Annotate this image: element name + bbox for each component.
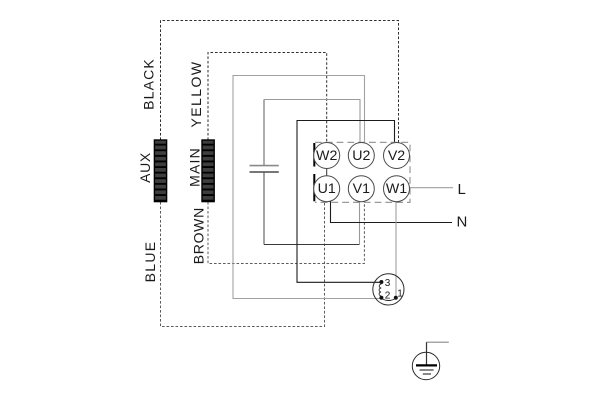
wire N: terminal U1 down and right to N (331, 201, 453, 222)
wire: terminal W1 down to connector pin 1 (395, 202, 397, 297)
svg-text:BLUE: BLUE (142, 241, 158, 283)
wire: across to above U2 (264, 100, 360, 143)
bridge pin2 to pin1 (381, 299, 395, 301)
terminal V2 (384, 143, 410, 169)
wire: terminal U2 up-left-down to connector pin 2 (gray loop) (233, 76, 381, 299)
terminal U1 (314, 176, 340, 202)
wire: up to terminal V1 (359, 202, 361, 245)
svg-text:BLACK: BLACK (141, 58, 157, 110)
svg-text:AUX: AUX (137, 152, 153, 183)
capacitor C1 (250, 166, 279, 172)
pin 3 (379, 280, 383, 284)
svg-text:3: 3 (385, 278, 391, 289)
thermal switch plug connector (373, 274, 404, 305)
protective earth ground symbol (412, 352, 439, 379)
svg-text:BROWN: BROWN (191, 207, 207, 264)
svg-text:U1: U1 (318, 181, 336, 197)
svg-text:W2: W2 (316, 148, 337, 164)
wire L: terminal W1 right to L (410, 187, 453, 189)
thermal element squiggle between pin 3 and pin 2 (379, 284, 381, 296)
pin 1 (394, 296, 398, 300)
ground wire (427, 341, 449, 343)
pin 2 (379, 296, 383, 300)
wire BLACK cable: aux winding top to terminal V2 (161, 21, 399, 143)
svg-text:YELLOW: YELLOW (188, 60, 204, 127)
wire YELLOW cable: main winding top to terminal W2 (208, 53, 327, 143)
terminal block outline (315, 142, 410, 202)
wire: capacitor bottom plate down (263, 173, 265, 245)
wire BLUE cable: aux winding bottom to terminal U1 (161, 201, 325, 326)
svg-text:MAIN: MAIN (187, 147, 203, 187)
terminal V1 (348, 176, 374, 202)
wire BROWN cable: main winding bottom to terminal V1 (208, 202, 364, 264)
wire: across below to V1 (264, 244, 360, 246)
svg-text:N: N (457, 214, 468, 231)
svg-text:L: L (458, 181, 466, 198)
svg-text:V2: V2 (388, 148, 405, 164)
terminal U2 (348, 143, 374, 169)
wire: terminal V2 area black run down to connector pin 3 (297, 121, 395, 283)
svg-text:U2: U2 (352, 148, 370, 164)
svg-text:V1: V1 (353, 181, 370, 197)
main winding MAIN (202, 140, 214, 202)
jumper W2-U1 (326, 168, 328, 176)
terminal W2 (314, 143, 340, 169)
wire: capacitor top plate up (263, 100, 265, 166)
auxiliary winding AUX (154, 140, 166, 202)
svg-text:W1: W1 (386, 181, 407, 197)
terminal block left edge marks (313, 143, 315, 167)
terminal W1 (384, 176, 410, 202)
svg-text:1: 1 (397, 288, 403, 299)
